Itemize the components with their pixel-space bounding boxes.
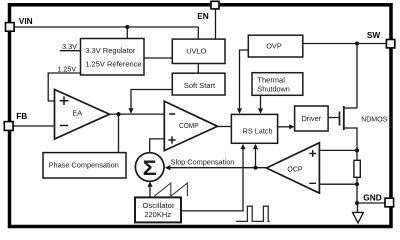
- block Oscillator 220KHz: [135, 197, 181, 222]
- wire oscillator clock to RS latch: [181, 149, 243, 211]
- wire 1.25V reference to EA+: [48, 73, 80, 101]
- wire VIN branch to regulator: [126, 27, 128, 39]
- transistor NDMOS channel bar: [343, 106, 345, 130]
- wire UVLO to Soft Start: [197, 64, 199, 74]
- svg-text:Σ: Σ: [143, 157, 157, 180]
- node EA output dot: [116, 112, 120, 116]
- arrow into sigma: [165, 165, 171, 170]
- wire SW node down to NDMOS drain: [356, 44, 358, 109]
- block RS Latch: [231, 114, 277, 143]
- wire 3.3V output stub: [60, 50, 81, 52]
- wire NDMOS drain: [344, 107, 357, 109]
- arrow slope up into RS latch: [253, 144, 258, 150]
- wire sigma to COMP+: [150, 139, 165, 153]
- block OVP: [248, 35, 302, 57]
- waveform clock pulses: [236, 206, 270, 221]
- svg-text:EA: EA: [73, 108, 83, 117]
- arrow soft start down: [128, 108, 133, 114]
- wire to ground symbol: [357, 203, 359, 212]
- node sense top dot: [355, 148, 359, 152]
- svg-text:NDMOS: NDMOS: [361, 117, 387, 124]
- svg-text:RS Latch: RS Latch: [243, 127, 273, 136]
- svg-text:SW: SW: [367, 30, 381, 40]
- pin GND: [385, 198, 394, 207]
- node SW dot: [355, 41, 359, 45]
- wire Driver to NDMOS gate: [328, 117, 339, 119]
- wire oscillator to sigma: [149, 187, 151, 198]
- wire FB to EA-: [13, 125, 55, 127]
- summing node sigma: [135, 153, 164, 182]
- block Phase Compensation: [43, 153, 126, 178]
- arrow into driver: [289, 124, 294, 129]
- svg-text:Oscillator: Oscillator: [142, 201, 174, 210]
- svg-text:COMP: COMP: [179, 123, 199, 130]
- pin VIN: [6, 23, 15, 32]
- pin SW: [386, 40, 394, 48]
- block Driver: [295, 106, 329, 131]
- svg-text:3.3V Regulator: 3.3V Regulator: [85, 46, 136, 55]
- wire RS Latch to Driver: [278, 126, 290, 128]
- wire VIN rail: [14, 26, 199, 28]
- wire COMP output to RS Latch: [218, 126, 232, 128]
- svg-text:EN: EN: [197, 11, 209, 21]
- arrow OVP down into RS latch: [237, 108, 242, 114]
- node slope wire dot: [253, 166, 257, 170]
- comparator OCP: [267, 143, 320, 194]
- wire regulator to UVLO: [144, 57, 173, 59]
- op-amp EA error amplifier: [55, 90, 110, 140]
- pin FB: [4, 122, 13, 131]
- svg-text:220KHz: 220KHz: [144, 210, 171, 219]
- svg-text:GND: GND: [363, 192, 381, 202]
- svg-text:Phase Compensation: Phase Compensation: [49, 161, 119, 170]
- wire OCP+ to sense node: [319, 149, 357, 151]
- wire slope line up to RS latch: [255, 149, 257, 168]
- svg-text:FB: FB: [16, 111, 27, 121]
- node VIN junction dot: [125, 25, 129, 29]
- svg-text:OCP: OCP: [287, 166, 303, 173]
- svg-text:3.3V: 3.3V: [62, 42, 77, 51]
- pin EN: [211, 1, 219, 9]
- arrow thermal shutdown down into RS latch: [258, 108, 263, 114]
- wire Thermal Shutdown to RS Latch: [260, 95, 262, 109]
- svg-text:1.25V Reference: 1.25V Reference: [85, 59, 141, 68]
- arrow oscillator up into sigma: [147, 181, 152, 187]
- wire OVP to SW node: [303, 43, 387, 45]
- ground: [353, 212, 364, 223]
- block Thermal Shutdown: [252, 73, 303, 96]
- transistor NDMOS gate bar: [339, 112, 341, 126]
- wire NDMOS source: [344, 128, 357, 150]
- block 3.3V regulator / 1.25V reference: [81, 39, 145, 76]
- svg-text:Slop Compensation: Slop Compensation: [171, 158, 235, 167]
- svg-text:Driver: Driver: [301, 114, 321, 123]
- svg-text:Soft Start: Soft Start: [184, 81, 216, 90]
- svg-text:Thermal: Thermal: [257, 76, 285, 85]
- node sense bottom dot: [355, 182, 359, 186]
- wire Soft Start to COMP input line: [131, 90, 173, 109]
- waveform sawtooth: [154, 183, 187, 196]
- svg-text:UVLO: UVLO: [186, 46, 206, 55]
- resistor R sense: [354, 160, 360, 177]
- svg-text:OVP: OVP: [266, 42, 282, 51]
- arrow clock up into RS latch: [240, 144, 245, 150]
- block UVLO U1: [172, 39, 225, 63]
- wire EA output to COMP-: [110, 113, 165, 115]
- svg-text:Shutdown: Shutdown: [257, 84, 289, 93]
- node ground dot: [355, 201, 359, 205]
- svg-text:1.25V: 1.25V: [57, 65, 76, 74]
- wire OCP output / slope compensation line: [170, 167, 266, 169]
- block Soft Start: [172, 73, 225, 95]
- wire EA output to Phase Compensation: [118, 114, 120, 153]
- wire sense node to resistor: [356, 150, 358, 160]
- wire OVP to RS Latch: [240, 50, 249, 109]
- svg-text:VIN: VIN: [19, 16, 33, 26]
- wire resistor bottom to ground node: [356, 177, 358, 203]
- wire EN to UVLO top: [215, 9, 217, 40]
- wire VIN branch into UVLO top: [197, 27, 199, 40]
- wire ground node to GND pin: [357, 202, 385, 204]
- wire OCP- tap: [319, 183, 357, 185]
- comparator COMP: [164, 101, 217, 150]
